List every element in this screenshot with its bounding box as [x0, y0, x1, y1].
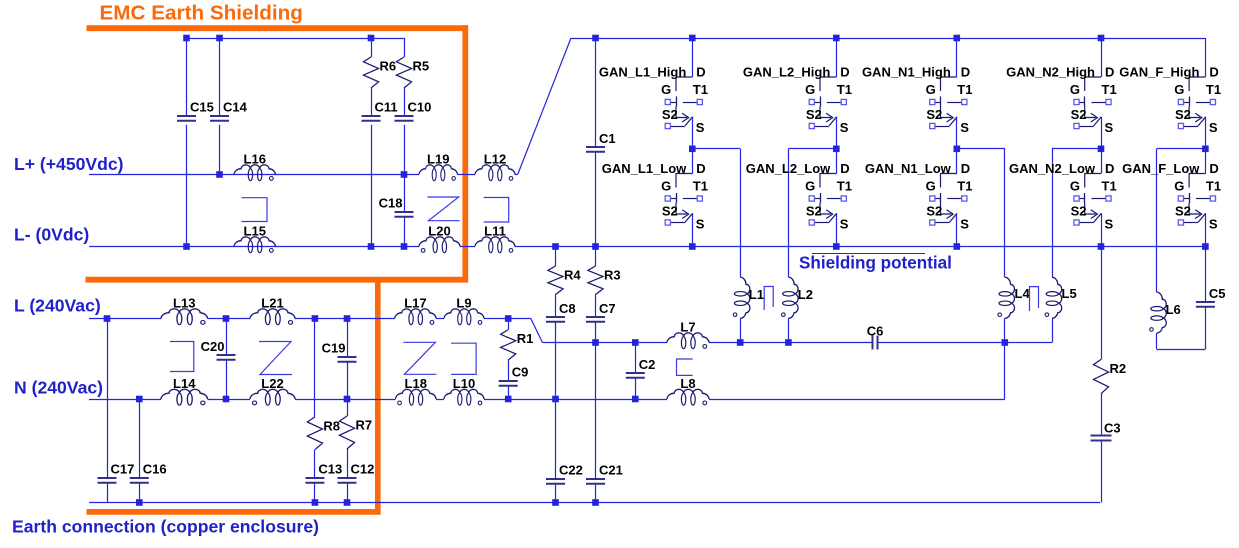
GAN_N2_Low gate lead — [1079, 198, 1085, 200]
junction R3 top — [592, 243, 599, 250]
wire R2/C3 column — [1101, 247, 1103, 360]
inductor L17 — [395, 296, 436, 325]
wire diagonal R1 jog — [531, 319, 543, 343]
GAN_L2_High drain lead — [836, 38, 838, 77]
GAN_L2_Low drain lead — [836, 149, 838, 174]
coupling mark L7/L8 — [677, 359, 693, 375]
wire L5 phase column — [1052, 149, 1054, 277]
transistor GAN_N1_Low — [865, 149, 973, 247]
junction shield top / C15 — [183, 35, 190, 42]
svg-text:GAN_N2_High: GAN_N2_High — [1006, 65, 1095, 80]
EMC shield boundary bottom bar — [87, 509, 381, 515]
EMC shield boundary lower vertical bar — [375, 280, 381, 515]
junction C11 bottom L- — [368, 243, 375, 250]
GAN_L2_Low terminal T1 pad — [841, 196, 846, 201]
capacitor C22 — [546, 463, 583, 484]
svg-text:S: S — [960, 120, 969, 135]
EMC shield boundary top bar — [87, 25, 469, 31]
EMC shield boundary right bar — [462, 25, 468, 282]
wire R1/C9 column — [508, 319, 510, 330]
GAN_N1_Low source diagonal — [949, 213, 957, 222]
wire L phase rail — [89, 318, 161, 320]
GAN_F_Low gate terminal G — [1178, 196, 1183, 201]
coupling mark L17/L18 — [403, 342, 436, 374]
GAN_N2_High source kink — [1085, 107, 1096, 118]
inductor L5 — [1045, 277, 1077, 318]
svg-text:N (240Vac): N (240Vac) — [14, 378, 103, 398]
svg-text:C3: C3 — [1104, 421, 1121, 436]
GAN_N2_High terminal T1 lead — [1092, 102, 1106, 104]
GAN_L1_Low source arrow — [682, 210, 689, 219]
svg-text:L (240Vac): L (240Vac) — [14, 296, 101, 316]
GAN_N1_Low gate lead — [935, 198, 941, 200]
GAN_F_Low drain jog — [1189, 174, 1205, 188]
transistor GAN_N1_High — [862, 38, 973, 149]
wire L mid rail C6 to L4/L5 node — [878, 342, 1052, 344]
svg-text:R3: R3 — [604, 268, 621, 283]
GAN_N2_High gate terminal G — [1074, 99, 1079, 104]
GAN_L1_High source lead — [692, 117, 694, 149]
GAN_N2_Low S2 lead — [1079, 222, 1093, 224]
svg-text:T1: T1 — [1102, 82, 1117, 97]
GAN_F_Low gate lead — [1184, 198, 1190, 200]
svg-text:L21: L21 — [261, 296, 283, 311]
svg-text:C15: C15 — [190, 100, 214, 115]
resistor R4 — [548, 266, 581, 295]
svg-text:R8: R8 — [323, 418, 340, 433]
resistor R1 — [501, 330, 534, 360]
wire L mid rail L7 to C6 — [709, 342, 873, 344]
junction GAN_L1_Low source — [689, 243, 696, 250]
GAN_F_High drain jog — [1189, 77, 1205, 91]
svg-text:GAN_N1_High: GAN_N1_High — [862, 65, 951, 80]
svg-text:C21: C21 — [599, 463, 623, 478]
GAN_L2_Low gate terminal G — [809, 196, 814, 201]
GAN_L1_High drain jog — [676, 77, 692, 91]
GAN_F_Low source lead — [1205, 213, 1207, 246]
GAN_N1_High source lead — [956, 117, 958, 149]
capacitor C11 — [362, 100, 398, 121]
wire N phase rail segment L18-L10 — [436, 399, 444, 401]
svg-text:G: G — [1174, 82, 1184, 97]
wire GAN_F midpoint tap — [1157, 148, 1206, 150]
capacitor C13 — [305, 462, 342, 483]
GAN_N2_High drain jog — [1085, 77, 1101, 91]
GAN_L2_Low source lead — [836, 213, 838, 246]
svg-text:C8: C8 — [559, 301, 576, 316]
GAN_F_Low S2 terminal pad — [1178, 220, 1183, 225]
junction GAN_F_Low source / C5 top — [1202, 243, 1209, 250]
svg-text:S2: S2 — [926, 204, 942, 219]
GAN_L1_High gate lead — [670, 102, 676, 104]
inductor L6 — [1150, 292, 1181, 333]
svg-text:D: D — [1209, 161, 1218, 176]
svg-text:L15: L15 — [244, 224, 266, 239]
svg-text:S: S — [696, 120, 705, 135]
svg-text:C20: C20 — [201, 339, 225, 354]
GAN_N2_High drain lead — [1101, 38, 1103, 77]
inductor L10 — [444, 376, 484, 405]
GAN_N2_Low S2 terminal pad — [1074, 220, 1079, 225]
GAN_L2_High terminal T1 pad — [841, 99, 846, 104]
svg-text:T1: T1 — [1206, 82, 1221, 97]
junction C16 earth — [136, 499, 143, 506]
capacitor C20 — [201, 339, 236, 360]
capacitor C2 — [626, 357, 656, 378]
svg-text:G: G — [926, 179, 936, 194]
GAN_N1_High gate terminal G — [930, 99, 935, 104]
wire R5/C10/C18 column — [404, 38, 406, 57]
GAN_L1_Low terminal T1 lead — [683, 198, 697, 200]
transistor GAN_L2_High — [743, 38, 852, 149]
GAN_F_High source arrow — [1195, 113, 1202, 122]
svg-text:L14: L14 — [173, 376, 196, 391]
GAN_L1_High source arrow — [682, 113, 689, 122]
GAN_L1_Low source lead — [692, 213, 694, 246]
GAN_N2_Low source kink — [1085, 203, 1096, 214]
GAN_L1_High terminal T1 lead — [683, 102, 697, 104]
wire R3/C7/C21 column — [595, 247, 597, 267]
GAN_N1_High terminal T1 pad — [962, 99, 967, 104]
svg-text:GAN_L2_High: GAN_L2_High — [743, 65, 830, 80]
inductor L20 — [419, 224, 460, 253]
junction GAN_N2_High drain — [1098, 35, 1105, 42]
GAN_L2_High source arrow — [826, 113, 833, 122]
GAN_F_High S2 lead — [1184, 126, 1198, 128]
shielding potential overline — [812, 253, 925, 255]
junction C21 earth — [592, 499, 599, 506]
wire L4/L5 node down to N rail — [1004, 343, 1006, 400]
junction C18 bottom L- — [401, 243, 408, 250]
svg-text:T1: T1 — [1102, 179, 1117, 194]
GAN_N2_Low drain jog — [1085, 174, 1101, 188]
GAN_N2_Low terminal T1 lead — [1092, 198, 1106, 200]
svg-text:S2: S2 — [1071, 204, 1087, 219]
wire shield net top-left (C15-C14-R6-R5) — [187, 38, 405, 40]
GAN_L2_High terminal T1 lead — [827, 102, 841, 104]
GAN_F_High source kink — [1189, 107, 1200, 118]
junction C7 mid — [592, 339, 599, 346]
wire L phase rail segment after L9 — [484, 318, 531, 320]
svg-text:T1: T1 — [837, 179, 852, 194]
svg-text:GAN_F_High: GAN_F_High — [1119, 65, 1199, 80]
capacitor C6 — [867, 323, 884, 349]
svg-text:Shielding potential: Shielding potential — [799, 253, 952, 272]
svg-text:S: S — [696, 217, 705, 232]
svg-text:L11: L11 — [484, 224, 506, 239]
transistor GAN_N2_Low — [1009, 149, 1117, 247]
svg-text:C1: C1 — [599, 131, 616, 146]
coupling mark L21/L22 — [259, 342, 292, 375]
GAN_L2_Low gate lead — [814, 198, 820, 200]
GAN_N2_Low terminal T1 pad — [1106, 196, 1111, 201]
svg-text:D: D — [840, 161, 849, 176]
wire L mid rail to L7 — [542, 342, 667, 344]
svg-text:S: S — [840, 120, 849, 135]
GAN_F_Low source kink — [1189, 203, 1200, 214]
svg-text:S2: S2 — [1071, 107, 1087, 122]
svg-text:R1: R1 — [517, 331, 534, 346]
svg-text:D: D — [696, 161, 705, 176]
svg-text:R4: R4 — [564, 268, 581, 283]
inductor L19 — [419, 152, 458, 181]
wire switching DC+ rail top-right — [571, 38, 1205, 40]
GAN_F_High terminal T1 pad — [1210, 99, 1215, 104]
junction C8 mid N — [552, 396, 559, 403]
wire C1 column — [595, 38, 597, 146]
svg-text:D: D — [1209, 65, 1218, 80]
svg-text:C16: C16 — [143, 462, 167, 477]
wire L1 phase column — [740, 149, 742, 277]
junction GAN_F midpoint — [1202, 146, 1209, 153]
coupling mark L13/L14 — [170, 342, 194, 372]
svg-text:L- (0Vdc): L- (0Vdc) — [14, 225, 89, 245]
coupling mark L4/L5 — [1030, 287, 1039, 311]
GAN_N1_Low source arrow — [947, 210, 954, 219]
svg-text:G: G — [805, 82, 815, 97]
GAN_N2_Low source diagonal — [1094, 213, 1102, 222]
wire L4 phase column — [1004, 149, 1006, 277]
junction GAN_N2_Low source / R2 top — [1098, 243, 1105, 250]
GAN_L1_Low gate terminal G — [665, 196, 670, 201]
junction R6 top — [368, 35, 375, 42]
capacitor C12 — [338, 462, 375, 483]
GAN_N2_Low source arrow — [1091, 210, 1098, 219]
junction C20 top — [223, 315, 230, 322]
GAN_F_High gate terminal G — [1178, 99, 1183, 104]
inductor L21 — [250, 296, 295, 325]
junction C16 top N — [136, 396, 143, 403]
GAN_F_High terminal T1 lead — [1196, 102, 1210, 104]
inductor L12 — [475, 152, 515, 181]
svg-text:C6: C6 — [867, 323, 884, 338]
svg-text:L10: L10 — [453, 376, 475, 391]
svg-text:C11: C11 — [375, 100, 398, 115]
GAN_N1_Low terminal T1 pad — [962, 196, 967, 201]
svg-text:R5: R5 — [413, 59, 430, 74]
junction GAN_N2 midpoint — [1098, 146, 1105, 153]
GAN_N1_Low terminal T1 lead — [947, 198, 961, 200]
junction L1 output — [737, 339, 744, 346]
wire C15 column — [186, 38, 188, 115]
wire R8/C13 column — [314, 319, 316, 417]
svg-text:C9: C9 — [512, 365, 529, 380]
GAN_N2_High source arrow — [1091, 113, 1098, 122]
GAN_N2_High terminal T1 pad — [1106, 99, 1111, 104]
svg-text:R7: R7 — [356, 418, 373, 433]
GAN_N1_Low S2 lead — [935, 222, 949, 224]
GAN_N2_Low gate terminal G — [1074, 196, 1079, 201]
resistor R3 — [588, 266, 621, 295]
GAN_L1_High source kink — [676, 107, 687, 118]
GAN_N1_High source diagonal — [949, 117, 957, 126]
svg-text:L8: L8 — [680, 376, 695, 391]
GAN_L1_Low S2 terminal pad — [665, 220, 670, 225]
capacitor C17 — [98, 462, 135, 483]
capacitor C5 — [1196, 286, 1226, 307]
inductor L15 — [234, 224, 276, 253]
svg-text:L5: L5 — [1062, 286, 1077, 301]
svg-text:L2: L2 — [798, 287, 813, 302]
junction GAN_L2_Low source — [833, 243, 840, 250]
GAN_L2_Low drain jog — [820, 174, 836, 188]
GAN_F_High S2 terminal pad — [1178, 123, 1183, 128]
svg-text:R2: R2 — [1110, 361, 1127, 376]
GAN_N2_Low source lead — [1101, 213, 1103, 246]
junction C1 top — [592, 35, 599, 42]
coupling mark L9/L10 — [451, 343, 476, 374]
resistor R5 — [396, 57, 429, 88]
junction GAN_N1_Low source — [954, 243, 961, 250]
GAN_N1_Low channel bar — [940, 193, 942, 203]
inductor L8 — [667, 376, 709, 405]
GAN_N1_High terminal T1 lead — [947, 102, 961, 104]
GAN_N2_High source lead — [1101, 117, 1103, 149]
junction C20 bottom N — [223, 396, 230, 403]
wire GAN_N2 midpoint tap — [1052, 148, 1101, 150]
wire C14 column — [219, 38, 221, 115]
wire R4/C8/C22 column — [555, 247, 557, 267]
junction C15 bottom L- — [183, 243, 190, 250]
GAN_N1_Low S2 terminal pad — [930, 220, 935, 225]
GAN_N1_High drain lead — [956, 38, 958, 77]
junction GAN_L1 midpoint — [689, 146, 696, 153]
resistor R6 — [363, 57, 396, 88]
svg-text:C13: C13 — [318, 462, 342, 477]
svg-text:D: D — [840, 65, 849, 80]
capacitor C1 — [586, 131, 616, 152]
EMC shield boundary middle bar — [86, 277, 469, 283]
wire N phase rail — [89, 399, 161, 401]
svg-text:L1: L1 — [749, 287, 764, 302]
svg-text:D: D — [1105, 161, 1114, 176]
junction C22 earth — [552, 499, 559, 506]
wire C2 column — [635, 343, 637, 373]
svg-text:T1: T1 — [1206, 179, 1221, 194]
wire L phase rail segment L13-L21 — [208, 318, 251, 320]
GAN_L2_Low source arrow — [826, 210, 833, 219]
svg-text:L18: L18 — [405, 376, 427, 391]
junction C14 bottom L+ — [216, 171, 223, 178]
svg-text:T1: T1 — [957, 82, 972, 97]
GAN_F_High gate lead — [1184, 102, 1190, 104]
wire L+ rail — [89, 174, 419, 176]
capacitor C7 — [586, 301, 616, 322]
wire N phase rail L8 to right — [709, 399, 1005, 401]
wire GAN_L2 midpoint tap — [788, 148, 836, 150]
GAN_N1_High channel bar — [940, 97, 942, 107]
svg-text:L20: L20 — [428, 224, 450, 239]
wire L- rail right section — [515, 246, 1205, 248]
GAN_N2_High source diagonal — [1094, 117, 1102, 126]
junction GAN_L1_High drain — [689, 35, 696, 42]
svg-text:G: G — [805, 179, 815, 194]
junction C19/R7 N — [344, 396, 351, 403]
svg-text:T1: T1 — [693, 179, 708, 194]
transistor GAN_L1_Low — [602, 149, 708, 247]
GAN_N1_Low source lead — [956, 213, 958, 246]
junction C10/C18 L+ — [401, 171, 408, 178]
wire L6 column — [1156, 149, 1158, 292]
wire earth rail — [89, 502, 1100, 504]
GAN_N2_High gate lead — [1079, 102, 1085, 104]
svg-text:L6: L6 — [1166, 302, 1181, 317]
wire L phase rail segment L21-L17 — [295, 318, 395, 320]
svg-text:S2: S2 — [1175, 107, 1191, 122]
junction C2 top — [632, 339, 639, 346]
svg-text:D: D — [696, 65, 705, 80]
GAN_N2_High S2 lead — [1079, 126, 1093, 128]
GAN_N1_Low source kink — [941, 203, 952, 214]
GAN_L2_Low terminal T1 lead — [827, 198, 841, 200]
coupling mark L1/L2 — [764, 287, 773, 311]
svg-text:G: G — [1070, 179, 1080, 194]
wire C5 column — [1205, 247, 1207, 302]
GAN_N1_High drain jog — [941, 77, 957, 91]
svg-text:C14: C14 — [223, 100, 248, 115]
inductor L22 — [250, 376, 295, 405]
junction GAN_N1 midpoint — [954, 146, 961, 153]
svg-text:S2: S2 — [926, 107, 942, 122]
junction C12 earth — [344, 499, 351, 506]
GAN_L2_High source kink — [820, 107, 831, 118]
transistor GAN_L1_High — [599, 38, 708, 149]
svg-text:S2: S2 — [662, 107, 678, 122]
svg-text:C17: C17 — [111, 462, 135, 477]
svg-text:C2: C2 — [639, 357, 656, 372]
svg-text:T1: T1 — [837, 82, 852, 97]
GAN_L1_Low terminal T1 pad — [697, 196, 702, 201]
inductor L4 — [998, 277, 1031, 318]
junction R1 top — [505, 315, 512, 322]
junction C9 bottom N — [505, 396, 512, 403]
svg-text:C19: C19 — [322, 341, 346, 356]
GAN_F_Low drain lead — [1205, 149, 1207, 174]
svg-text:S: S — [1209, 120, 1218, 135]
GAN_L2_Low S2 terminal pad — [809, 220, 814, 225]
svg-text:S2: S2 — [662, 204, 678, 219]
junction R4 top — [552, 243, 559, 250]
svg-text:G: G — [926, 82, 936, 97]
svg-text:L19: L19 — [427, 152, 449, 167]
svg-text:L13: L13 — [173, 296, 195, 311]
junction C2 bottom N — [632, 396, 639, 403]
GAN_L2_High gate lead — [814, 102, 820, 104]
GAN_L2_High source lead — [836, 117, 838, 149]
inductor L13 — [161, 296, 207, 325]
resistor R7 — [339, 416, 372, 449]
capacitor C15 — [177, 100, 214, 121]
svg-text:R6: R6 — [380, 59, 397, 74]
wire L phase rail segment L17-L9 — [436, 318, 444, 320]
svg-text:D: D — [1105, 65, 1114, 80]
svg-text:D: D — [961, 65, 970, 80]
wire C19/R7/C12 column — [347, 319, 349, 357]
svg-text:S: S — [1105, 217, 1114, 232]
GAN_N2_High channel bar — [1084, 97, 1086, 107]
wire GAN_N1 midpoint tap — [957, 148, 1005, 150]
inductor L9 — [444, 296, 484, 325]
junction L4/L5 output — [1002, 339, 1009, 346]
GAN_L1_Low channel bar — [676, 193, 678, 203]
coupling mark L12/L11 — [484, 198, 509, 223]
wire C17 column — [107, 319, 109, 478]
svg-text:G: G — [661, 82, 671, 97]
svg-text:G: G — [661, 179, 671, 194]
junction GAN_L2_High drain — [833, 35, 840, 42]
svg-text:L9: L9 — [456, 296, 471, 311]
GAN_N1_Low gate terminal G — [930, 196, 935, 201]
